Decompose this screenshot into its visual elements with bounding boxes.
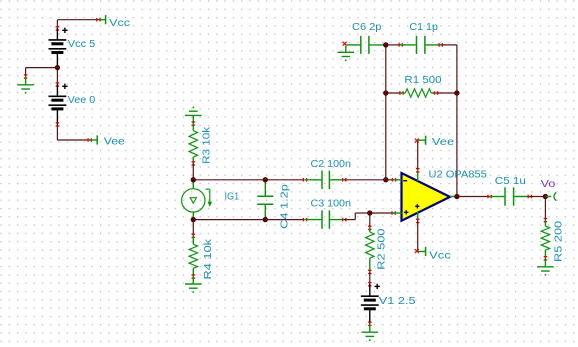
svg-text:Vee: Vee <box>104 137 126 148</box>
svg-text:R5 200: R5 200 <box>554 220 565 262</box>
svg-text:Vo: Vo <box>541 179 556 190</box>
svg-text:Vee 0: Vee 0 <box>68 95 96 106</box>
svg-text:C5 1u: C5 1u <box>495 176 526 187</box>
svg-text:R4 10k: R4 10k <box>203 238 214 280</box>
svg-text:C2 100n: C2 100n <box>311 159 351 170</box>
svg-text:C6 2p: C6 2p <box>352 22 382 33</box>
svg-text:R3 10k: R3 10k <box>202 126 213 164</box>
svg-text:C3 100n: C3 100n <box>311 199 351 210</box>
svg-text:C1 1p: C1 1p <box>409 22 438 33</box>
svg-text:R1 500: R1 500 <box>404 75 442 86</box>
svg-text:Vee: Vee <box>432 137 455 148</box>
svg-text:C4 1.2p: C4 1.2p <box>280 184 291 229</box>
svg-text:IG1: IG1 <box>225 192 240 203</box>
svg-text:U2 OPA855: U2 OPA855 <box>429 169 488 180</box>
svg-text:Vcc: Vcc <box>109 18 130 29</box>
svg-text:V1 2.5: V1 2.5 <box>379 296 416 307</box>
svg-text:Vcc 5: Vcc 5 <box>68 39 96 50</box>
svg-text:Vcc: Vcc <box>429 250 451 261</box>
svg-text:R2 500: R2 500 <box>377 228 388 270</box>
